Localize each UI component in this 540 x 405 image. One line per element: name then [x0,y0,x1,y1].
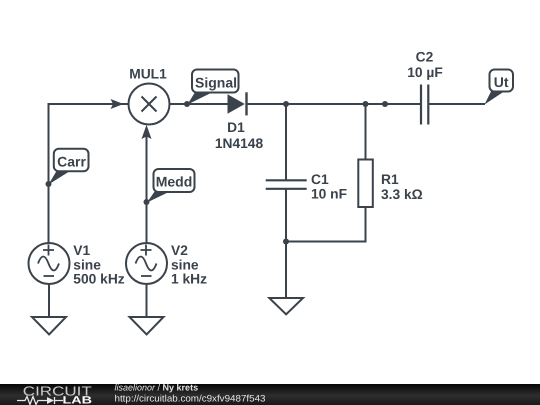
node Medd junction dot [144,199,150,205]
node Carr junction dot [46,181,52,187]
svg-text:3.3 kΩ: 3.3 kΩ [381,187,423,202]
node Signal junction dot [184,101,190,107]
wire R1 top lead [365,104,367,160]
voltage source V2 plus sign [141,245,152,256]
node Signal flag tail [188,91,217,105]
node junction dot at C1 [283,101,289,107]
wire from diode cathode to C2 left plate [248,103,421,105]
svg-text:Carr: Carr [57,154,86,170]
svg-text:Signal: Signal [195,75,237,91]
node Signal flag box [192,70,239,93]
svg-text:V2: V2 [171,243,188,258]
voltage source V2 sine symbol [136,257,157,271]
wire V2 bottom lead to ground [146,284,148,317]
diode D1 cathode bar [245,92,247,115]
wire from bottom net down to ground [285,242,287,299]
capacitor C2 plates [421,85,428,125]
wire C1 top lead [285,104,287,180]
svg-text:C1: C1 [311,172,329,187]
svg-text:Medd: Medd [156,174,193,190]
svg-text:MUL1: MUL1 [129,67,167,82]
voltage source V1 circle [29,243,70,284]
svg-text:500 kHz: 500 kHz [73,272,124,287]
svg-text:sine: sine [171,257,199,272]
svg-text:D1: D1 [227,120,245,135]
wire V2 top lead up to MUL1 [146,131,148,244]
node Ut flag box [490,70,514,92]
voltage source V2 minus sign [141,275,152,277]
capacitor C1 plates [266,180,307,189]
wire top-left horizontal from corner to MUL1 input [49,103,129,105]
svg-text:http://circuitlab.com/c9xfv948: http://circuitlab.com/c9xfv9487f543 [115,394,266,405]
multiplier MUL1 X symbol [142,97,157,112]
voltage source V1 plus sign [43,245,54,256]
ground symbol below V2 [130,317,164,335]
svg-text:R1: R1 [381,172,399,187]
CircuitLab logo schematic squiggle [17,397,47,405]
CircuitLab logo diode symbol [47,397,54,404]
wire R1 bottom lead [286,207,366,242]
voltage source V1 minus sign [44,275,55,277]
node junction dot before C2 [382,101,388,107]
svg-text:1N4148: 1N4148 [215,136,264,151]
CircuitLab logo diode bar and lead [55,397,64,404]
svg-text:10 nF: 10 nF [311,187,347,202]
node Medd flag box [154,169,195,192]
footer bar [0,384,540,405]
voltage source V1 sine symbol [38,257,59,271]
ground symbol below C1 [269,298,303,314]
svg-text:lisaelionor / Ny krets: lisaelionor / Ny krets [115,383,199,393]
svg-text:V1: V1 [73,243,90,258]
op-amp multiplier MUL1 circle [129,84,170,125]
node junction dot at C1/R1 bottom net [283,239,289,245]
svg-text:10 µF: 10 µF [407,65,443,80]
svg-text:Ut: Ut [494,74,509,90]
wire from MUL1 output to diode anode [170,103,228,105]
ground symbol below V1 [32,317,66,335]
node Carr flag tail [49,169,75,185]
resistor R1 body [358,160,373,208]
svg-text:LAB: LAB [63,395,93,405]
node Ut flag tail [485,90,508,105]
node Carr flag box [54,149,89,172]
wire from C2 right plate to Ut [429,103,485,105]
node Medd flag tail [147,190,174,203]
diode D1 triangle [228,94,245,113]
voltage source V2 circle [126,243,167,284]
node junction dot at R1 [363,101,369,107]
wire vertical from corner down to V1 [48,103,50,244]
wire V1 bottom lead to ground [48,284,50,317]
wire arrowhead into MUL1 bottom input [142,125,152,139]
wire C1 bottom lead [285,189,287,243]
wire arrowhead into MUL1 left input [111,99,124,109]
svg-text:sine: sine [73,257,101,272]
svg-text:1 kHz: 1 kHz [171,272,207,287]
svg-text:C2: C2 [416,50,434,65]
